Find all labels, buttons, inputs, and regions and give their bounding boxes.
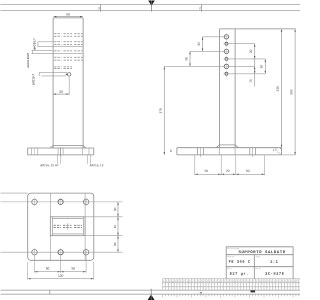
dim 30 left upper (202, 37, 204, 52)
title block right (292, 247, 294, 279)
zone digit 2 (top border) (199, 7, 200, 9)
hole 1 Ø10 (224, 35, 228, 39)
dim 30 right lower (264, 59, 266, 74)
side plate hidden hole right (249, 148, 251, 155)
bottom hole row centerline (1, 251, 94, 253)
centerline middle hole (60, 147, 62, 156)
PLAN VIEW: base plate (28, 193, 94, 260)
slot inner lines (53, 218, 84, 220)
dim 30 right upper (254, 44, 256, 87)
hole 4 Ø7 (225, 57, 228, 60)
callout text Ø10H7 (27, 53, 29, 68)
ruler black segment (251, 290, 256, 292)
front plate hidden hole walls (corner hole left) (30, 148, 32, 155)
dim 30 (bottom) (114, 243, 116, 246)
front base plate outline (28, 147, 94, 149)
dim 50 left (46, 267, 49, 269)
callout text Ø7 lower (32, 74, 35, 85)
zone tick x=100 (top) (100, 5, 102, 12)
title row line 1 (226, 254, 293, 256)
side bottom dims 50/20/50 (194, 155, 196, 175)
dim 30 left lower (189, 51, 191, 66)
chamfer leader (277, 152, 281, 154)
plan bottom dims 50/50 (34, 256, 36, 273)
title row line 2 (226, 266, 293, 268)
front weld chamfer right (83, 146, 86, 149)
hidden line hole4 bottom (54, 59, 61, 61)
hidden line hole3 top (54, 50, 61, 52)
comb strip cells (162, 279, 164, 290)
dim 30 (top) (114, 208, 116, 211)
plate thickness 15 (170, 150, 172, 153)
hole top-left (32, 199, 38, 205)
cell label scala (256, 256, 260, 257)
leader arrowhead at hole (66, 74, 68, 76)
dim 50 right (72, 267, 75, 269)
hidden line hole4 top (54, 56, 61, 58)
material FE 360 C (229, 260, 250, 262)
leader lines / callout Ø7 (upper) (38, 41, 53, 43)
scale 1:1 (270, 260, 277, 262)
hole bottom-middle (58, 250, 63, 255)
hidden line hole2 top (54, 41, 61, 43)
hole top-right (83, 199, 89, 205)
hole bottom-left (32, 249, 38, 255)
leader lines / callout Ø10H7 (mid) (32, 49, 54, 51)
dim 15 right (254, 67, 256, 70)
dim 175 left (163, 66, 165, 154)
title block top (226, 246, 293, 248)
sheet frame: top border lines (1, 4, 301, 6)
dim 235 (281, 29, 283, 148)
top centering line (151, 1, 153, 12)
dim 30 (hole offset, front) (52, 78, 54, 95)
zone tick x=201 (top) (201, 5, 203, 12)
bottom centering line (150, 289, 152, 300)
zone tick x=49 (bottom) (49, 290, 51, 294)
leader lines to side hole end (39, 72, 67, 74)
side weld chamfer right (235, 145, 238, 148)
leaders left (203, 36, 225, 38)
front plate hidden hole walls (middle hole) (57, 148, 59, 155)
front weld chamfer left (50, 146, 53, 149)
front plate hidden hole walls (corner hole right) (82, 148, 84, 155)
extension lines to hole labels (56, 155, 58, 164)
side column top edge + extension (220, 28, 296, 30)
label Ø 10 H7 (40, 164, 58, 167)
bottom centering arrow (147, 295, 155, 300)
sheet frame: bottom border lines (1, 289, 301, 291)
label Ø 13 (90, 164, 103, 167)
hole 3 Ø10 (224, 49, 228, 53)
hidden line hole1 bottom (54, 35, 61, 37)
hole 6 Ø7 (225, 72, 228, 75)
cell label materiale (228, 256, 235, 257)
hole top-middle (58, 199, 63, 204)
front weld bead line (53, 145, 83, 147)
plate bottom extension right (282, 154, 296, 156)
side weld chamfer left (216, 145, 219, 148)
chamfer note 1,5 (273, 149, 277, 151)
centerline corner hole left (34, 147, 36, 156)
comb strip lines (163, 278, 301, 280)
column edges on plate (219, 148, 221, 155)
hole 2 Ø7 (225, 42, 228, 45)
plan right-side dims 30/40/30 (94, 201, 123, 203)
top centering arrow (148, 1, 155, 6)
zone digit 3 (top border) (98, 7, 100, 9)
front column outline (53, 17, 83, 19)
title SUPPORTO SALDATO (239, 250, 286, 253)
plan overall dim 130 (27, 262, 29, 280)
slot hidden dashes (54, 224, 62, 226)
side column left edge (219, 29, 221, 148)
slot center dash (67, 223, 69, 229)
side weld bead (220, 144, 236, 146)
side plate hidden hole left (197, 148, 199, 155)
cell label denominazione (228, 248, 240, 249)
title column divider (253, 255, 255, 279)
dim 250 (294, 29, 296, 155)
hidden line hole5 bottom (54, 67, 61, 69)
plate corner chamfer (280, 148, 282, 150)
leaders right (229, 43, 255, 45)
slot side walls extended (49, 193, 51, 260)
side hole end circle (68, 73, 71, 76)
dim 60 (column width, top) (54, 16, 83, 18)
hidden line hole2 bottom (54, 44, 61, 46)
hidden line hole1 top (54, 33, 61, 35)
cell label dis n (256, 268, 260, 269)
side column right edge (234, 29, 236, 148)
plate top edge extension to left (1, 192, 28, 194)
ruler ticks (162, 294, 164, 297)
drawing number 3C-8275 (265, 272, 283, 274)
central slot outer box (50, 217, 85, 236)
ruler mark (200, 292, 202, 294)
hole 5 Ø10 (224, 64, 228, 68)
side base plate (177, 147, 282, 149)
title block left (225, 247, 227, 279)
hole bottom-right (83, 249, 89, 255)
callout text Ø7 upper (33, 39, 36, 50)
hidden line hole5 top (54, 66, 61, 68)
dim 40 (mid) (114, 225, 116, 228)
top hole row centerline (1, 201, 94, 203)
cell label peso (228, 268, 232, 269)
weight 537 gr. (230, 272, 248, 275)
